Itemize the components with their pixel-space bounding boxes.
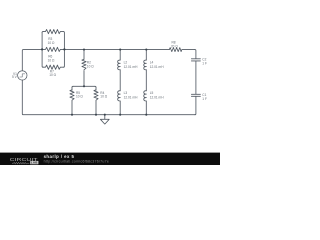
svg-text:12.01 mH: 12.01 mH xyxy=(124,65,139,69)
svg-text:1 F: 1 F xyxy=(202,97,207,101)
svg-text:LAB: LAB xyxy=(31,161,38,165)
svg-text:10 Ω: 10 Ω xyxy=(48,41,55,45)
svg-text:12.01 mH: 12.01 mH xyxy=(150,96,165,100)
svg-text:20 Ω: 20 Ω xyxy=(171,44,178,48)
svg-text:10 Ω: 10 Ω xyxy=(49,73,56,77)
svg-text:12.01 mH: 12.01 mH xyxy=(124,96,139,100)
svg-text:L5: L5 xyxy=(150,91,154,95)
svg-text:L3: L3 xyxy=(124,91,128,95)
svg-text:10 Ω: 10 Ω xyxy=(48,59,55,63)
svg-text:1 F: 1 F xyxy=(202,61,207,65)
svg-text:10 Ω: 10 Ω xyxy=(100,95,107,99)
svg-text:10 Ω: 10 Ω xyxy=(87,64,94,68)
svg-text:http://circuitlab.com/c6f68c37: http://circuitlab.com/c6f68c376/7u7e xyxy=(44,160,109,164)
svg-text:10 Ω: 10 Ω xyxy=(76,95,83,99)
svg-text:L4: L4 xyxy=(150,61,154,65)
svg-text:12.01 mH: 12.01 mH xyxy=(150,65,165,69)
svg-text:sharlp / ex 5: sharlp / ex 5 xyxy=(44,154,75,159)
svg-text:L2: L2 xyxy=(124,61,128,65)
